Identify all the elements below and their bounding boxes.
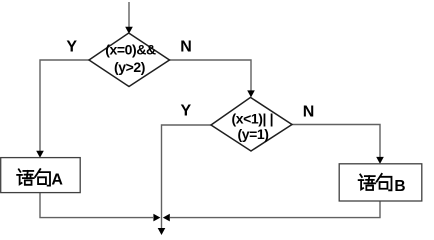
svg-text:(x=0)&&: (x=0)&& [105, 42, 156, 58]
svg-text:N: N [180, 39, 192, 56]
svg-text:(y>2): (y>2) [114, 59, 145, 75]
svg-text:A: A [51, 171, 63, 188]
svg-text:Y: Y [180, 103, 191, 120]
svg-text:Y: Y [66, 39, 77, 56]
svg-text:B: B [394, 178, 405, 195]
svg-text:(y=1): (y=1) [237, 126, 268, 142]
svg-text:(x<1)| |: (x<1)| | [231, 111, 273, 127]
svg-text:N: N [303, 104, 315, 121]
